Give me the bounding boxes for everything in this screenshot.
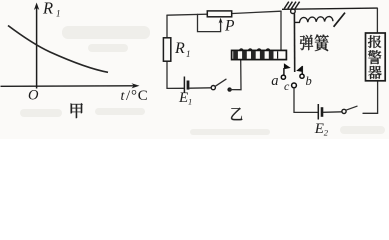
- pivot ring c: [292, 83, 297, 88]
- battery E2: [317, 104, 319, 120]
- label tanhuang (spring): [300, 35, 313, 50]
- electromagnet coil: [232, 49, 287, 60]
- label yi (figure b): [231, 108, 242, 121]
- battery E1: [167, 87, 184, 89]
- ceiling hatching: [284, 2, 289, 9]
- svg-text:/°C: /°C: [126, 88, 149, 104]
- svg-text:b: b: [306, 74, 312, 88]
- wire left vertical upper (circuit 2): [166, 15, 168, 38]
- svg-text:c: c: [284, 79, 290, 93]
- svg-text:P: P: [224, 17, 235, 34]
- wire right vertical to coil: [280, 11, 282, 51]
- label jia (figure a): [71, 103, 83, 118]
- pivot ring at ceiling: [291, 9, 296, 14]
- wire switch to coil: [230, 60, 241, 90]
- contact a: [284, 63, 291, 69]
- ceiling support line: [282, 8, 377, 9]
- wire top (circuit 2): [167, 11, 281, 15]
- rheostat wiper bypass wire: [198, 14, 221, 31]
- wire c down to bottom: [294, 88, 317, 113]
- svg-text:O: O: [28, 88, 39, 104]
- svg-text:R: R: [42, 0, 53, 17]
- node contact dot: [227, 87, 231, 91]
- svg-text:R: R: [174, 40, 185, 57]
- wire bottom right: [363, 81, 378, 113]
- wire left vertical lower: [166, 61, 168, 88]
- svg-text:1: 1: [56, 9, 61, 19]
- resistor R1: [163, 38, 170, 61]
- curve R1 vs t: [8, 26, 108, 73]
- graph y-axis R1: [36, 5, 38, 89]
- switch S1: [211, 86, 215, 90]
- svg-text:2: 2: [324, 128, 329, 138]
- switch S2: [342, 109, 346, 113]
- svg-text:E: E: [178, 90, 188, 106]
- alarm box baojingqi: [366, 33, 386, 81]
- rheostat P box: [207, 11, 231, 17]
- spring anchor slash: [334, 13, 345, 27]
- wire ceiling to alarm: [376, 8, 378, 33]
- contact b: [296, 66, 302, 72]
- graph x-axis t/C: [1, 85, 137, 88]
- svg-text:a: a: [271, 73, 278, 89]
- spring: [295, 17, 333, 23]
- svg-text:1: 1: [186, 49, 191, 59]
- svg-text:E: E: [314, 121, 324, 137]
- svg-text:1: 1: [188, 96, 192, 106]
- armature bar: [293, 13, 295, 72]
